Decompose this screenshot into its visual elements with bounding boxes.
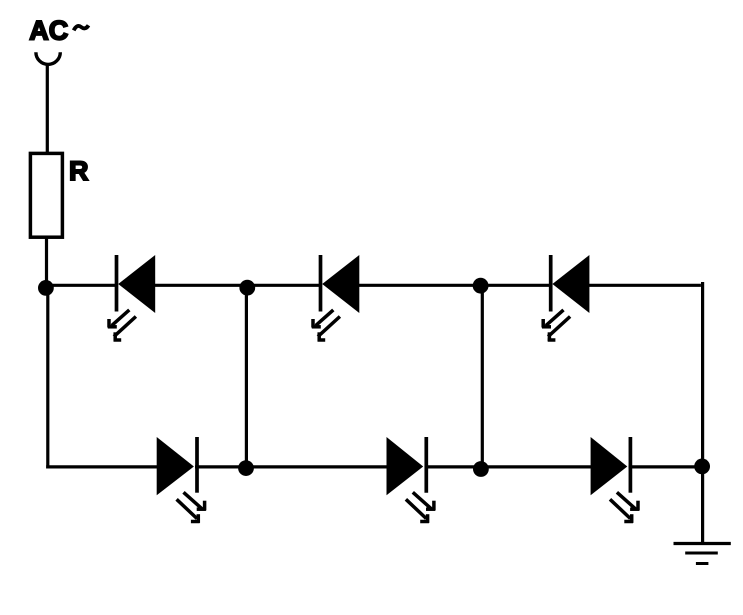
D3 triangle <box>552 255 589 313</box>
node A (junction dot, top-left) <box>38 280 54 296</box>
wire: LED D5 cathode to node E <box>425 465 483 468</box>
wire: node D to LED D5 anode <box>245 465 388 468</box>
svg-text:AC: AC <box>29 16 68 46</box>
node B (junction dot, top-middle-left) <box>239 280 255 296</box>
wire: node A to LED D1 cathode <box>45 284 118 287</box>
wire: right side drop, corner to node F <box>701 282 704 466</box>
wire: node C to LED D3 cathode <box>479 284 552 287</box>
D4 light arrow 2 <box>177 499 200 523</box>
D4 light arrow 1 <box>184 492 206 510</box>
D2 triangle <box>322 255 359 313</box>
wire: bottom-left corner to LED D4 anode <box>46 465 158 468</box>
wire: left side drop, node A to bottom rail <box>46 286 49 469</box>
D6 cathode bar <box>629 437 633 493</box>
wire: resistor R to node A <box>45 237 48 282</box>
wire: middle drop, node C to node E <box>481 286 484 470</box>
LED D1 (top row, left, pointing left) <box>108 255 155 341</box>
D3 light arrow 1 <box>542 310 564 328</box>
D3 light arrow 2 <box>548 317 570 342</box>
LED D2 (top row, middle, pointing left) <box>312 255 360 341</box>
D6 light arrow 2 <box>610 499 633 523</box>
D4 cathode bar <box>195 437 199 493</box>
wire: LED D6 cathode to node F <box>629 465 704 468</box>
D1 light arrow 1 <box>108 310 130 328</box>
LED D4 (bottom row, left, pointing right) <box>157 437 206 523</box>
wire: LED D4 cathode to node D <box>195 465 247 468</box>
node C (junction dot, top-middle-right) <box>473 278 489 294</box>
D4 triangle <box>157 437 194 495</box>
wire: LED D1 anode to node B <box>154 284 250 287</box>
wire: middle drop, node B to node D <box>245 287 248 468</box>
wire: AC terminal to resistor R <box>46 65 49 154</box>
D6 triangle <box>591 437 628 495</box>
D6 light arrow 1 <box>617 492 639 510</box>
D1 cathode bar <box>115 255 119 312</box>
LED D3 (top row, right, pointing left) <box>542 255 589 341</box>
node D (junction dot, bottom-middle-left) <box>238 460 254 476</box>
node E (junction dot, bottom-middle-right) <box>473 461 489 477</box>
resistor R <box>30 153 62 237</box>
D1 triangle <box>118 255 155 313</box>
D5 triangle <box>387 437 424 495</box>
D3 cathode bar <box>549 255 553 312</box>
D2 light arrow 2 <box>318 317 340 342</box>
D5 cathode bar <box>424 437 428 493</box>
wire: LED D3 anode to top-right corner <box>588 284 701 287</box>
D2 cathode bar <box>319 255 323 312</box>
wire: node E to LED D6 anode <box>479 465 592 468</box>
svg-text:R: R <box>69 156 89 186</box>
LED D5 (bottom row, middle, pointing right) <box>387 437 436 523</box>
LED D6 (bottom row, right, pointing right) <box>591 437 640 523</box>
D5 light arrow 2 <box>406 499 429 523</box>
wire: LED D2 anode to node C <box>358 284 482 287</box>
AC input terminal arc <box>36 52 60 64</box>
D2 light arrow 1 <box>312 310 334 328</box>
wire: node F to ground <box>701 466 704 544</box>
node F (junction dot, bottom-right) <box>694 459 710 475</box>
D5 light arrow 1 <box>413 492 435 510</box>
D1 light arrow 2 <box>114 317 136 342</box>
wire: node B to LED D2 cathode <box>246 284 322 287</box>
ground symbol <box>674 544 731 564</box>
